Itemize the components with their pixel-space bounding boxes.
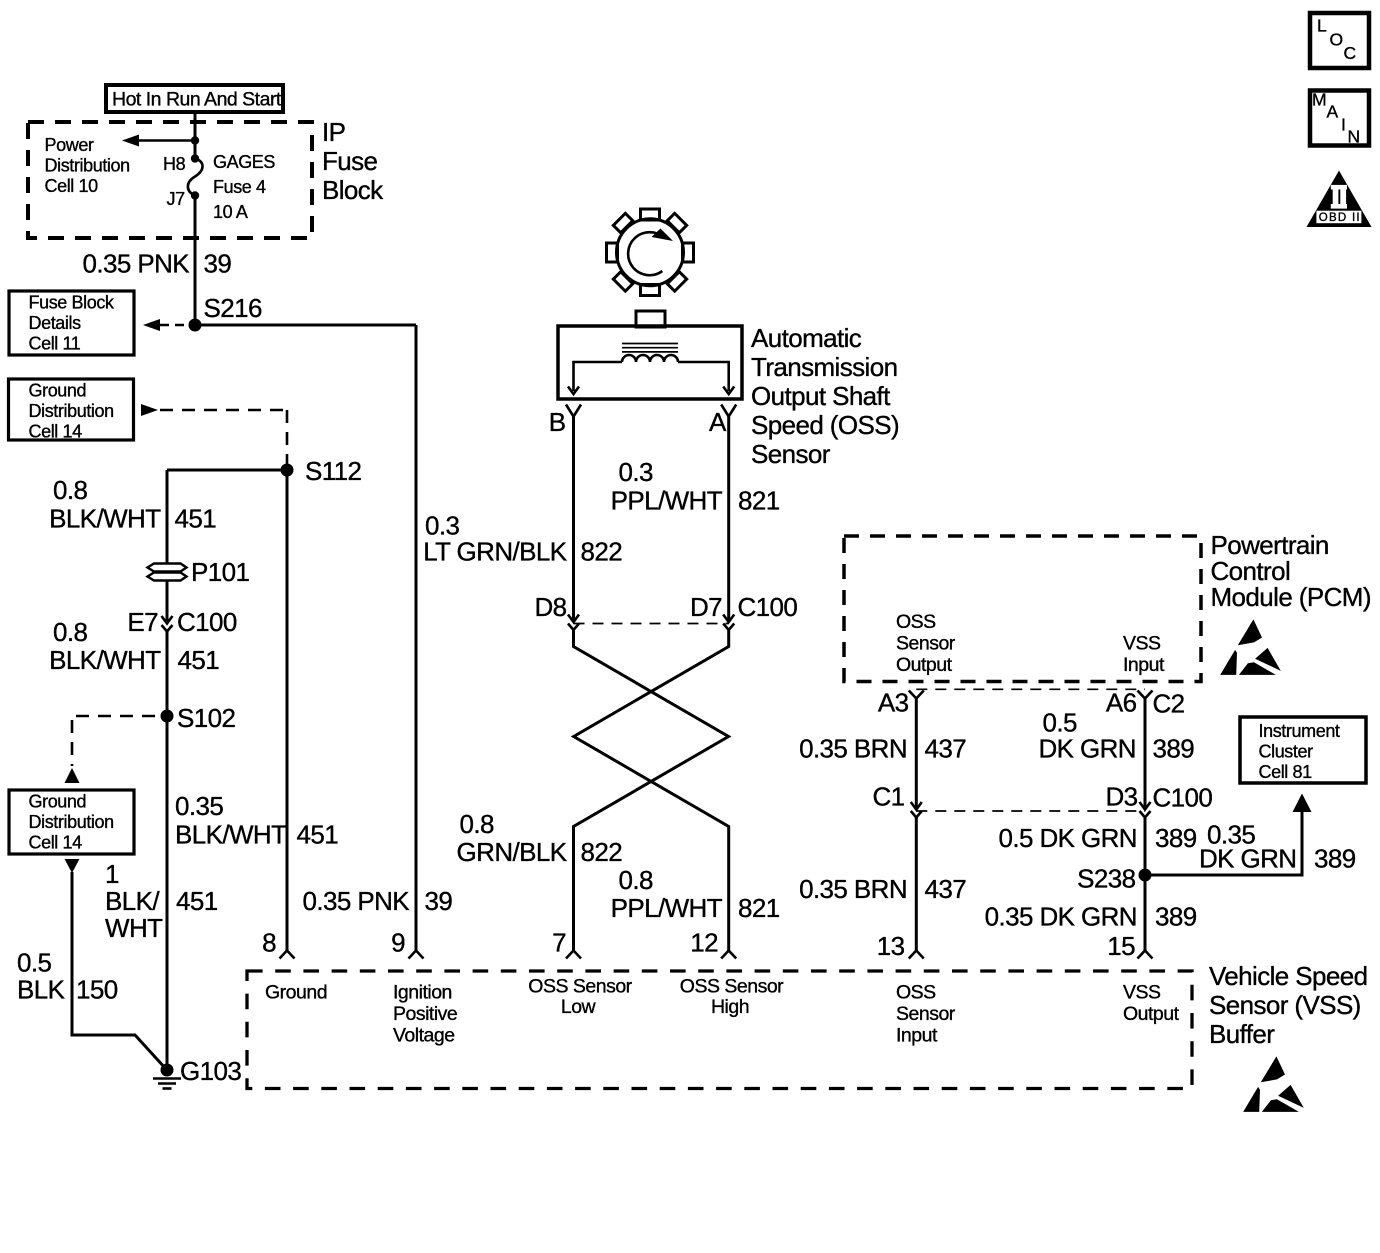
svg-text:O: O [1330,30,1344,50]
0.5 DK GRN 389 label (upper) [1038,708,1194,764]
svg-text:E7: E7 [127,607,158,637]
Fuse Block Details Cell 11 box [9,291,134,355]
svg-text:0.35 DK GRN: 0.35 DK GRN [985,902,1137,932]
C2 connector dashed line [916,688,1145,690]
svg-text:IP: IP [322,117,345,147]
ESD symbol (VSS buffer) [1243,1056,1304,1112]
svg-text:0.8: 0.8 [53,617,87,647]
svg-text:Details: Details [29,313,82,333]
gear rotation arrow arc [628,232,664,275]
svg-text:A3: A3 [878,688,909,718]
svg-text:GRN/BLK: GRN/BLK [457,837,568,867]
sensor pin B chevron [566,405,581,417]
svg-text:Fuse 4: Fuse 4 [213,177,266,197]
Ignition Positive Voltage pin label [393,982,457,1047]
junction dot fuse top branch [191,136,199,144]
svg-text:A6: A6 [1106,688,1137,718]
svg-text:PPL/WHT: PPL/WHT [611,893,723,923]
wire Ground Distribution to G103 [72,872,166,1069]
wire A to C100 D7 [727,417,730,622]
OSS sensor box [558,326,742,399]
svg-text:0.35: 0.35 [175,791,223,821]
wire ignition feed down to pin 9 [415,325,418,951]
PCM dashed box [844,536,1201,682]
arrow to Instrument Cluster [1293,794,1312,813]
svg-text:Output Shaft: Output Shaft [751,381,891,411]
crossover wire D7 to pin 12 [574,630,729,951]
svg-text:0.35 PNK: 0.35 PNK [83,249,191,279]
svg-text:437: 437 [925,874,967,904]
Instrument Cluster Cell 81 box [1240,717,1366,783]
S216 splice dot [189,319,202,332]
svg-text:39: 39 [425,886,453,916]
G103 ground symbol [153,1079,181,1089]
VSS Output pin label [1123,982,1180,1026]
svg-text:BLK/: BLK/ [105,886,160,916]
C100 pin D7 arrowhead [723,615,734,623]
svg-text:Fuse: Fuse [322,146,378,176]
svg-text:OSS: OSS [896,982,936,1004]
wire from Hot box into fuse block [194,112,197,159]
svg-text:389: 389 [1155,902,1197,932]
wire S112 branch down to P101 [166,470,169,564]
Ground Distribution Cell 14 box (lower) [9,790,134,854]
svg-text:Module (PCM): Module (PCM) [1211,582,1371,612]
wire B to C100 D8 [572,417,575,622]
svg-text:Hot In Run And Start: Hot In Run And Start [112,89,282,111]
0.35 BLK/WHT 451 label (S112 to pin 8 wire) [175,791,338,850]
G103 ground dot [161,1064,174,1077]
svg-text:BLK/WHT: BLK/WHT [175,820,287,850]
svg-text:0.35 BRN: 0.35 BRN [799,874,907,904]
svg-text:0.8: 0.8 [460,809,494,839]
OSS Sensor Input pin label [896,982,956,1047]
svg-text:DK GRN: DK GRN [1038,734,1136,764]
0.35 BRN 437 label (lower) [799,874,966,904]
dashed wire to S112 [160,409,287,412]
fuse GAGES Fuse 4 element [188,159,203,196]
svg-text:L: L [1317,16,1327,36]
sensor core lines [622,344,678,352]
wire fuse to S216 [194,196,197,326]
svg-text:M: M [1312,90,1327,110]
OSS Sensor Low pin label [528,976,632,1019]
fuse F4 terminal H8 dot [191,154,199,162]
svg-text:Ground: Ground [265,982,327,1004]
svg-text:Distribution: Distribution [29,812,114,832]
gear icon outer circle [607,209,694,296]
svg-text:Distribution: Distribution [29,401,114,421]
0.3 LT GRN/BLK 822 label [423,511,622,567]
svg-text:0.35 BRN: 0.35 BRN [799,734,907,764]
branch wire to Power Distribution arrow [138,139,195,142]
svg-text:12: 12 [690,928,718,958]
gear teeth [607,209,694,296]
sensor coil [622,355,678,362]
svg-text:Ignition: Ignition [393,982,452,1004]
sensor internal lead B [574,362,623,391]
LOC legend box [1310,13,1369,68]
svg-text:821: 821 [738,486,780,516]
S112 splice dot [281,464,294,477]
svg-text:Low: Low [561,996,597,1018]
Powertrain Control Module label [1211,530,1371,612]
gear rotation arrowhead [652,229,674,242]
svg-text:0.8: 0.8 [53,475,87,505]
svg-text:Transmission: Transmission [751,352,897,382]
wire S238 to Instrument Cluster [1145,812,1302,875]
0.8 BLK/WHT 451 label (below C100) [49,617,219,675]
svg-text:WHT: WHT [105,913,163,943]
0.8 PPL/WHT 821 label [611,865,780,923]
svg-text:H8: H8 [163,154,186,174]
svg-text:Output: Output [1123,1003,1180,1025]
C100 pin D8 chevron [568,624,579,631]
svg-text:OSS Sensor: OSS Sensor [528,976,632,998]
svg-text:C100: C100 [1153,783,1213,813]
svg-text:D7: D7 [690,592,722,622]
svg-text:0.5: 0.5 [17,948,51,978]
svg-text:C100: C100 [177,607,237,637]
wire C1 to pin 13 [915,818,918,951]
svg-text:Input: Input [1123,654,1165,676]
svg-text:451: 451 [176,886,218,916]
dashed arrow S216 to Fuse Block Details [160,324,192,327]
svg-text:B: B [549,407,566,437]
svg-text:S238: S238 [1077,864,1135,894]
svg-text:Output: Output [896,654,953,676]
svg-text:D8: D8 [534,592,566,622]
0.5 DK GRN 389 label (below D3) [999,823,1197,853]
sensor pin A chevron [721,405,736,417]
svg-text:13: 13 [877,931,905,961]
PCM pin A3 chevron [909,691,924,699]
svg-text:OBD II: OBD II [1319,212,1360,224]
svg-text:LT GRN/BLK: LT GRN/BLK [423,537,568,567]
svg-text:10 A: 10 A [213,202,248,222]
svg-text:PPL/WHT: PPL/WHT [611,486,723,516]
svg-text:822: 822 [581,537,623,567]
MAIN legend box [1310,90,1369,147]
svg-text:GAGES: GAGES [213,152,275,172]
svg-text:I: I [1341,115,1346,135]
svg-text:451: 451 [178,645,220,675]
svg-text:Positive: Positive [393,1003,457,1025]
IP Fuse Block label [322,117,384,205]
wire S102 to G103 [166,716,169,1070]
svg-text:1: 1 [105,859,119,889]
C100 pin D3 arrowhead [1140,802,1151,810]
svg-text:Buffer: Buffer [1209,1019,1275,1049]
wire S112 left segment [167,469,287,472]
0.8 BLK/WHT 451 label (upper) [49,475,216,534]
svg-text:Ground: Ground [29,792,87,812]
0.35 PNK 39 label (upper) [83,249,232,279]
svg-text:S112: S112 [305,456,362,486]
pin 9 chevron [409,951,424,959]
svg-text:S102: S102 [177,703,235,733]
svg-text:OSS: OSS [896,611,936,633]
pin 8 chevron [280,951,295,959]
svg-text:N: N [1348,127,1361,147]
svg-text:Vehicle Speed: Vehicle Speed [1209,961,1367,991]
0.8 GRN/BLK 822 label [457,809,623,867]
svg-text:Input: Input [896,1025,938,1047]
svg-text:9: 9 [391,928,405,958]
svg-text:0.35 PNK: 0.35 PNK [303,886,411,916]
arrow from Ground Distribution box [141,404,158,416]
arrow to Power Distribution [122,135,139,147]
svg-text:Sensor: Sensor [751,439,831,469]
svg-text:Distribution: Distribution [45,156,130,176]
svg-text:822: 822 [581,837,623,867]
svg-text:821: 821 [738,893,780,923]
connector C100 pin E7 arrowhead [162,616,173,624]
C100 connector dashed line (center) [574,623,729,625]
1 BLK/WHT 451 label [105,859,218,943]
svg-text:Cell 10: Cell 10 [45,176,99,196]
Vehicle Speed Sensor (VSS) Buffer label [1209,961,1367,1049]
svg-text:Cluster: Cluster [1259,742,1314,762]
svg-text:VSS: VSS [1123,982,1161,1004]
svg-text:Fuse Block: Fuse Block [29,293,115,313]
arrow into dashed wire above Ground Distribution box [65,768,80,783]
svg-text:Cell 14: Cell 14 [29,833,83,853]
connector C100 pin E7 chevron [162,625,173,632]
svg-text:High: High [711,996,749,1018]
0.5 BLK 150 label [17,948,118,1005]
svg-text:Automatic: Automatic [751,323,862,353]
GAGES Fuse 4 10 A label [213,152,275,222]
svg-text:7: 7 [552,928,566,958]
svg-text:D3: D3 [1105,782,1137,812]
svg-text:Instrument: Instrument [1259,721,1340,741]
arrow below Ground Distribution box [65,859,80,873]
wire D3 to S238 [1144,818,1147,951]
svg-text:J7: J7 [167,189,186,209]
wire S216 to ignition feed corner [195,324,416,327]
ESD symbol (PCM) [1220,619,1281,675]
0.35 DK GRN 389 label (lower) [985,902,1197,932]
IP Fuse Block dashed box [28,122,312,238]
svg-text:C: C [1344,43,1357,63]
pin 7 chevron [566,951,581,959]
dashed wire S102 to Ground Distribution (lower) [76,715,160,718]
svg-text:OSS Sensor: OSS Sensor [680,976,784,998]
svg-text:C100: C100 [738,592,798,622]
svg-text:BLK/WHT: BLK/WHT [49,504,161,534]
svg-text:BLK: BLK [17,975,66,1005]
pin 13 chevron [909,951,924,959]
svg-text:Sensor (VSS): Sensor (VSS) [1209,990,1361,1020]
svg-text:Voltage: Voltage [393,1025,455,1047]
OSS Sensor Output label [896,611,956,676]
svg-text:437: 437 [925,734,967,764]
svg-text:8: 8 [262,928,276,958]
C100 pin C1 arrowhead [911,802,922,810]
svg-text:389: 389 [1153,734,1195,764]
PCM pin A6 chevron [1138,691,1153,699]
S238 splice dot [1139,869,1152,882]
svg-text:BLK/WHT: BLK/WHT [49,645,161,675]
0.3 PPL/WHT 821 label [611,457,780,516]
wire A3 to C1 [915,699,918,810]
svg-text:389: 389 [1314,844,1356,874]
svg-text:Sensor: Sensor [896,1003,956,1025]
sensor internal lead A [678,362,729,391]
VSS buffer dashed box [247,971,1192,1089]
wire S112 down to pin 8 [286,470,289,951]
svg-text:G103: G103 [180,1056,241,1086]
svg-text:15: 15 [1107,931,1135,961]
svg-text:P101: P101 [191,557,249,587]
svg-text:Block: Block [322,175,384,205]
svg-text:DK GRN: DK GRN [1199,844,1297,874]
C100 pin D7 chevron [723,624,734,631]
Hot In Run And Start box [106,85,283,112]
svg-text:Cell 81: Cell 81 [1259,762,1313,782]
pin 12 chevron [721,951,736,959]
OSS sensor stem [636,311,665,327]
svg-text:VSS: VSS [1123,633,1161,655]
svg-text:39: 39 [204,249,232,279]
svg-text:451: 451 [175,504,217,534]
svg-text:Ground: Ground [29,381,87,401]
svg-text:A: A [709,407,727,437]
C100 pin C1 chevron [911,811,922,818]
wire E7 to S102 [166,632,169,717]
svg-text:Cell 11: Cell 11 [29,334,81,354]
svg-text:0.3: 0.3 [619,457,653,487]
svg-text:389: 389 [1155,823,1197,853]
svg-text:Power: Power [45,135,94,155]
C100 pin D3 chevron [1140,811,1151,818]
svg-text:A: A [1327,102,1339,122]
svg-text:Cell 14: Cell 14 [29,422,83,442]
svg-text:Speed (OSS): Speed (OSS) [751,410,899,440]
svg-text:451: 451 [297,820,339,850]
wire A6 to D3 [1144,699,1147,810]
svg-text:C1: C1 [872,782,904,812]
svg-text:Sensor: Sensor [896,633,956,655]
svg-text:C2: C2 [1153,689,1185,719]
svg-text:0.5 DK GRN: 0.5 DK GRN [999,823,1138,853]
fuse terminal J7 dot [191,191,199,199]
crossover wire D8 to pin 7 [574,630,729,951]
0.35 PNK 39 label (lower) [303,886,453,916]
grommet P101 [148,564,187,581]
OSS Sensor High pin label [680,976,784,1019]
Ground Distribution Cell 14 box (upper) [9,379,134,442]
VSS Input label [1123,633,1165,677]
C100 connector dashed line (right) [916,810,1145,812]
Automatic Transmission OSS Sensor label [751,323,899,469]
0.35 DK GRN 389 label (branch) [1199,820,1356,874]
pin 15 chevron [1138,951,1153,959]
S102 splice dot [161,710,174,723]
Power Distribution Cell 10 label [45,135,130,196]
C100 pin D8 arrowhead [568,615,579,623]
svg-text:S216: S216 [204,293,262,323]
svg-text:0.8: 0.8 [619,865,653,895]
OBD II symbol [1307,171,1372,228]
svg-text:150: 150 [76,975,118,1005]
0.35 BRN 437 label (upper) [799,734,966,764]
wire P101 to connector C100 pin E7 [166,581,169,622]
